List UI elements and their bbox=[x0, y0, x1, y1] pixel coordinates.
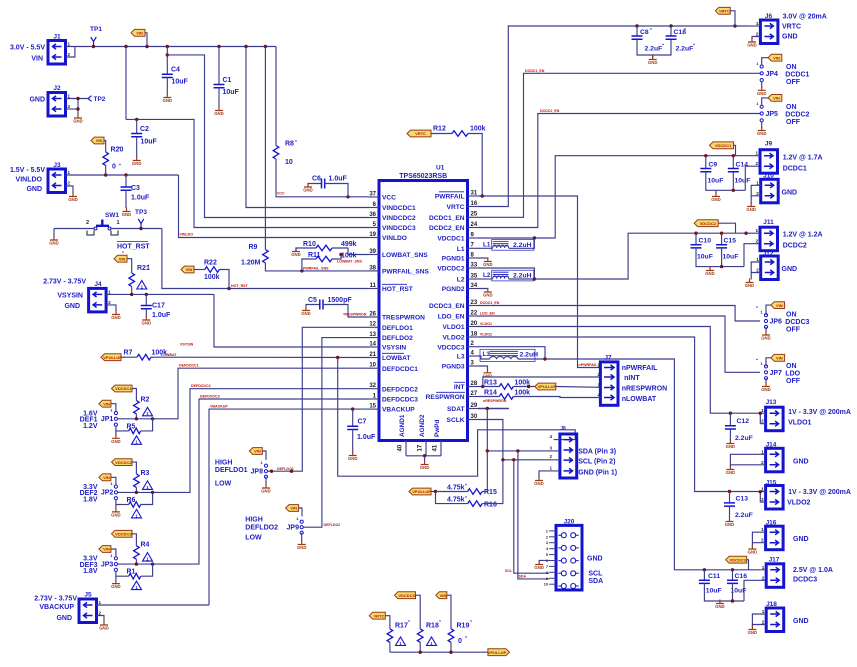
connector J3 body bbox=[48, 169, 71, 193]
svg-text:2.2uF: 2.2uF bbox=[735, 435, 753, 442]
svg-text:R19: R19 bbox=[457, 623, 470, 630]
svg-text:2.2uF: 2.2uF bbox=[735, 512, 753, 519]
net label nRESPWRON bbox=[483, 399, 507, 403]
wire J2 gnd drop bbox=[77, 99, 79, 115]
label R12 value bbox=[470, 126, 486, 133]
op-amp U1 TPS65023RSB IC body bbox=[379, 165, 468, 441]
label R14 bbox=[484, 390, 497, 397]
junction R22 bbox=[227, 287, 230, 290]
warning triangle R1 bbox=[132, 581, 142, 590]
svg-text:R12: R12 bbox=[433, 126, 446, 133]
wire R6 lead bbox=[123, 504, 129, 506]
svg-text:GND: GND bbox=[26, 186, 42, 193]
label DCDC3 J17 bbox=[793, 577, 817, 584]
svg-text:VIN: VIN bbox=[103, 401, 110, 406]
svg-text:ON: ON bbox=[786, 104, 797, 111]
wire VSYSIN net bbox=[214, 294, 369, 347]
svg-text:R13: R13 bbox=[484, 380, 497, 387]
U1 pin 35 L2 bbox=[457, 273, 478, 283]
net flag VDCDC1 JP1 bbox=[112, 385, 133, 392]
svg-text:SCL: SCL bbox=[588, 571, 603, 578]
svg-text:SDA: SDA bbox=[519, 575, 527, 579]
junction VPULLUP R13 bbox=[527, 385, 530, 388]
svg-text:C13: C13 bbox=[736, 496, 749, 503]
svg-text:DEFLDO2: DEFLDO2 bbox=[382, 335, 413, 342]
net flag VIN JP5 bbox=[768, 95, 782, 102]
svg-text:25: 25 bbox=[471, 212, 478, 218]
junction R15 R16 bbox=[434, 490, 437, 493]
net flag VIN JP7 bbox=[771, 354, 785, 361]
wire flag to R18 bbox=[416, 595, 421, 629]
label R8 bbox=[285, 141, 294, 148]
svg-text:33: 33 bbox=[471, 262, 478, 268]
wire C13 to gnd bbox=[729, 506, 731, 518]
label C11 bbox=[708, 573, 720, 580]
net label DCDC2_EN bbox=[540, 109, 560, 113]
svg-text:DEFDCDC2: DEFDCDC2 bbox=[191, 384, 211, 388]
net flag VIN JP1 bbox=[99, 400, 111, 407]
svg-text:R8: R8 bbox=[285, 141, 294, 148]
resistor R6 bbox=[129, 502, 141, 508]
label OFF JP6 bbox=[786, 327, 801, 334]
svg-text:1: 1 bbox=[99, 600, 102, 605]
label 1.8V bbox=[83, 497, 98, 504]
ground C8 C18 bbox=[648, 56, 658, 66]
ground J14 bbox=[726, 466, 736, 476]
svg-text:1: 1 bbox=[296, 517, 298, 521]
label DEF1 bbox=[80, 417, 98, 424]
label GND J6 bbox=[782, 34, 798, 41]
wire JP1 gnd drop bbox=[115, 431, 117, 435]
label R4 bbox=[141, 542, 150, 549]
junction R3 bottom bbox=[135, 491, 138, 494]
connector J16 body bbox=[761, 526, 783, 550]
wire VCC net bbox=[276, 159, 369, 197]
wire R22 to HOT_RST bbox=[219, 270, 229, 289]
wire R10 to LOWBAT_SNS bbox=[332, 248, 369, 255]
svg-text:VINDCDC1: VINDCDC1 bbox=[382, 205, 416, 212]
U1 pin 11 HOT_RST bbox=[369, 283, 413, 293]
svg-text:VPULLUP: VPULLUP bbox=[538, 384, 557, 389]
U1 pin 14 VSYSIN bbox=[369, 341, 407, 351]
wire to C4 bbox=[166, 47, 168, 74]
svg-text:nINT: nINT bbox=[624, 375, 640, 382]
U1 pin 27 RESPWRON bbox=[426, 391, 478, 401]
label C2 bbox=[140, 126, 149, 133]
junction C6 bbox=[346, 195, 349, 198]
label DEF2 bbox=[80, 490, 98, 497]
label 3.0V @ 20mA bbox=[783, 14, 827, 21]
label GND J18 bbox=[793, 618, 809, 625]
ground AGND bbox=[420, 461, 430, 471]
wire VLDO2 net bbox=[478, 337, 760, 492]
wire C15 bottom bbox=[721, 248, 723, 267]
label ON JP5 bbox=[786, 104, 797, 111]
label GND J14 bbox=[793, 459, 809, 466]
svg-text:2: 2 bbox=[68, 181, 71, 186]
U1 pin 15 VBACKUP bbox=[369, 404, 416, 414]
U1 pin 40 AGND1 bbox=[398, 414, 407, 456]
capacitor C12 bbox=[725, 426, 736, 429]
svg-text:DCDC2: DCDC2 bbox=[783, 243, 807, 250]
svg-text:GND: GND bbox=[56, 615, 72, 622]
wire C14 bottom bbox=[732, 172, 734, 191]
svg-text:GND: GND bbox=[761, 387, 771, 392]
warning triangle R3 bbox=[143, 481, 153, 490]
svg-text:VRTC: VRTC bbox=[782, 24, 801, 31]
resistor R12 bbox=[452, 131, 468, 137]
label SDA Pin 3 bbox=[578, 449, 616, 456]
wire J10 pins short bbox=[751, 185, 761, 196]
svg-text:GND: GND bbox=[111, 513, 121, 518]
capacitor C5 bbox=[320, 300, 323, 310]
wire to C16 bbox=[732, 570, 734, 580]
wire PGND3 bbox=[478, 366, 488, 370]
svg-text:VIN: VIN bbox=[290, 506, 297, 511]
wire gnd to R10 bbox=[296, 248, 316, 252]
wire VINLDO net bbox=[179, 175, 369, 238]
svg-text:VLDO1: VLDO1 bbox=[480, 322, 492, 326]
wire R3 to node bbox=[135, 488, 137, 493]
net flag VPULLUP R7 bbox=[101, 354, 122, 361]
svg-text:DEFDCDC3: DEFDCDC3 bbox=[382, 397, 418, 404]
svg-text:2: 2 bbox=[761, 497, 764, 502]
wire R15 lead bbox=[436, 491, 468, 493]
junction C3 bbox=[124, 173, 127, 176]
svg-text:VIN: VIN bbox=[773, 96, 780, 101]
junction C9 bbox=[704, 154, 707, 157]
wire gnd to C5 bbox=[306, 305, 320, 307]
wire VDCDC3 pin2 bbox=[478, 347, 545, 359]
wire J4 pin2 bbox=[106, 305, 116, 311]
resistor R13 bbox=[499, 384, 513, 390]
connector J2 body bbox=[48, 93, 71, 117]
svg-text:LOWBAT_SNS: LOWBAT_SNS bbox=[337, 260, 362, 264]
label L3 value bbox=[520, 351, 539, 358]
label VLDO1 J13 bbox=[788, 420, 811, 427]
svg-text:C11: C11 bbox=[708, 573, 720, 580]
ground C17 bbox=[142, 316, 152, 326]
svg-text:VLDO2: VLDO2 bbox=[443, 335, 465, 342]
junction JP8 mid bbox=[270, 470, 273, 473]
label HOT_RST net name bbox=[117, 242, 150, 251]
junction bbox=[76, 107, 79, 110]
svg-text:39: 39 bbox=[369, 249, 376, 255]
warning triangle R4 bbox=[143, 553, 153, 562]
wire J10 gnd drop bbox=[750, 196, 752, 204]
net label VBACKUP bbox=[210, 405, 228, 409]
label R22 value bbox=[204, 274, 220, 281]
svg-text:1: 1 bbox=[546, 529, 548, 533]
svg-text:VDCDC2: VDCDC2 bbox=[115, 460, 132, 465]
wire VIN to JP8 bbox=[262, 451, 266, 460]
label ON JP6 bbox=[786, 312, 797, 319]
svg-text:JP6: JP6 bbox=[770, 319, 783, 326]
svg-text:VRTC: VRTC bbox=[415, 131, 426, 136]
wire VINDCDC3 net bbox=[126, 119, 369, 227]
svg-text:VSYSIN: VSYSIN bbox=[57, 293, 83, 300]
svg-text:C2: C2 bbox=[140, 126, 149, 133]
svg-text:GND: GND bbox=[64, 303, 80, 310]
label GND J10 bbox=[782, 190, 798, 197]
ground J6 bbox=[747, 38, 757, 48]
svg-text:R15: R15 bbox=[484, 489, 497, 496]
svg-text:2.2uF: 2.2uF bbox=[676, 46, 694, 53]
junction SDAT bbox=[486, 407, 489, 410]
svg-text:1: 1 bbox=[68, 170, 71, 175]
wire R17 bottom bbox=[389, 642, 391, 652]
U1 pin 25 DCDC1_EN bbox=[429, 212, 478, 222]
U1 pin 33 VDCDC2 bbox=[437, 262, 478, 272]
svg-text:1: 1 bbox=[761, 362, 763, 366]
junction C15 gnd bbox=[720, 265, 723, 268]
svg-text:DCDC3_EN: DCDC3_EN bbox=[480, 301, 500, 305]
junction nINT branch bbox=[481, 385, 484, 388]
svg-text:VDCDC1: VDCDC1 bbox=[115, 386, 132, 391]
svg-text:35: 35 bbox=[471, 273, 478, 279]
svg-text:LDO: LDO bbox=[785, 371, 800, 378]
label C6 bbox=[312, 176, 321, 183]
net flag VIN R19 bbox=[436, 592, 447, 599]
svg-text:AGND1: AGND1 bbox=[399, 414, 406, 437]
wire VBACKUP net bbox=[209, 409, 369, 605]
svg-text:VIN: VIN bbox=[186, 267, 193, 272]
wire flag to R4 bbox=[132, 534, 136, 546]
label L1 bbox=[483, 241, 491, 248]
junction SCL bbox=[501, 458, 504, 461]
label R16 value bbox=[447, 497, 465, 504]
svg-text:100k: 100k bbox=[204, 274, 220, 281]
svg-text:4.75k: 4.75k bbox=[447, 485, 465, 492]
wire SW1 right HOT_RST bbox=[111, 228, 162, 230]
net label DEFDCDC1 bbox=[179, 364, 199, 368]
svg-text:1.2V @ 1.2A: 1.2V @ 1.2A bbox=[783, 232, 823, 239]
label C9 bbox=[709, 162, 718, 169]
svg-text:2.5V @ 1.0A: 2.5V @ 1.0A bbox=[793, 567, 833, 574]
wire to C11 bbox=[703, 570, 705, 580]
label DCDC2 JP5 bbox=[785, 112, 809, 119]
junction VRTC flag bbox=[733, 24, 736, 27]
svg-text:2: 2 bbox=[108, 300, 111, 305]
capacitor C2 bbox=[131, 134, 142, 137]
U1 pin 32 DEFDCDC2 bbox=[369, 383, 419, 393]
wire VDCDC3 flag stub bbox=[747, 560, 749, 570]
svg-text:PWRFAIL: PWRFAIL bbox=[435, 194, 465, 201]
net flag VRTC top bbox=[715, 7, 730, 14]
svg-text:R22: R22 bbox=[204, 260, 217, 267]
svg-text:VPULLUP: VPULLUP bbox=[103, 355, 122, 360]
resistor R21 bbox=[129, 273, 135, 287]
label OFF JP7 bbox=[786, 378, 801, 385]
svg-text:TRESPWRON: TRESPWRON bbox=[382, 315, 425, 322]
svg-text:VIN: VIN bbox=[776, 356, 783, 361]
svg-text:2: 2 bbox=[761, 538, 764, 543]
label VBACKUP bbox=[39, 604, 74, 611]
svg-text:C1: C1 bbox=[223, 77, 232, 84]
net label VINLDO bbox=[180, 233, 194, 237]
label C15 value bbox=[723, 254, 739, 261]
svg-text:2.2uF: 2.2uF bbox=[645, 46, 663, 53]
svg-text:1.0uF: 1.0uF bbox=[152, 312, 171, 319]
label L3 bbox=[483, 351, 491, 358]
wire C2 to gnd bbox=[136, 137, 138, 157]
wire to C14 bbox=[732, 156, 734, 168]
label ON JP4 bbox=[786, 64, 797, 71]
wire SDAT riser bbox=[486, 409, 488, 451]
wire HOT_RST net bbox=[162, 229, 369, 289]
wire R20 to J3 net bbox=[105, 166, 107, 176]
svg-text:HOT_RST: HOT_RST bbox=[231, 284, 249, 288]
U1 pin 34 PGND2 bbox=[442, 283, 478, 293]
label C17 value bbox=[152, 312, 171, 319]
connector J4 bbox=[94, 281, 102, 288]
svg-text:OFF: OFF bbox=[786, 119, 801, 126]
svg-text:10uF: 10uF bbox=[141, 139, 158, 146]
svg-text:C5: C5 bbox=[308, 297, 317, 304]
net flag VRTC R17 bbox=[369, 612, 385, 619]
wire JP2 gnd drop bbox=[115, 505, 117, 509]
connector J2 bbox=[53, 85, 61, 92]
svg-text:VIN: VIN bbox=[254, 449, 261, 454]
ground JP2 bbox=[111, 508, 121, 518]
wire R11 right bbox=[332, 255, 341, 260]
wire JP9 gnd drop bbox=[301, 533, 303, 541]
connector J12 body bbox=[756, 256, 778, 280]
svg-text:GND: GND bbox=[68, 197, 78, 202]
wire flag to R17 bbox=[385, 616, 390, 629]
label C17 bbox=[152, 303, 165, 310]
svg-text:VCC: VCC bbox=[277, 192, 285, 196]
net label VCC bbox=[277, 192, 285, 196]
svg-text:GND: GND bbox=[214, 111, 224, 116]
junction R6 riser bbox=[151, 491, 154, 494]
ground C4 bbox=[163, 94, 173, 104]
svg-text:GND: GND bbox=[420, 465, 430, 470]
svg-text:C14: C14 bbox=[736, 162, 749, 169]
jumper JP6 bbox=[761, 311, 768, 329]
svg-text:GND: GND bbox=[301, 311, 311, 316]
wire JP7 gnd drop bbox=[765, 378, 767, 383]
wire J6 pin1 stub bbox=[749, 25, 760, 27]
svg-text:1: 1 bbox=[756, 228, 759, 233]
label C11 value bbox=[706, 588, 722, 595]
svg-text:1: 1 bbox=[110, 554, 112, 558]
svg-text:GND: GND bbox=[757, 131, 767, 136]
svg-text:VINLDO: VINLDO bbox=[382, 235, 407, 242]
svg-text:GND: GND bbox=[793, 618, 809, 625]
jumper JP8 bbox=[261, 461, 268, 478]
warning triangle R21 bbox=[137, 281, 147, 290]
svg-text:LOWBAT_SNS: LOWBAT_SNS bbox=[382, 252, 428, 259]
wire SW1 gnd drop bbox=[53, 229, 55, 237]
wire R16 lead bbox=[436, 492, 468, 504]
svg-text:4.75k: 4.75k bbox=[447, 497, 465, 504]
connector J9 bbox=[765, 141, 773, 148]
svg-text:VLDO1: VLDO1 bbox=[443, 324, 465, 331]
svg-text:C4: C4 bbox=[171, 67, 180, 74]
wire C3 to gnd bbox=[125, 190, 127, 208]
wire LOWBAT net bbox=[151, 356, 369, 358]
svg-text:VSYSIN: VSYSIN bbox=[180, 343, 194, 347]
svg-text:0: 0 bbox=[112, 164, 116, 171]
label GND J16 bbox=[793, 536, 809, 543]
junction C17 bbox=[145, 293, 148, 296]
U1 pin 28 INT bbox=[454, 381, 478, 391]
wire VINDCDC1 net bbox=[246, 47, 369, 208]
wire C10 bottom bbox=[696, 248, 744, 267]
wire pin35 to L2 bbox=[478, 278, 493, 280]
svg-text:24: 24 bbox=[471, 222, 478, 228]
wire C5 to TRESPWRON bbox=[323, 305, 369, 318]
wire J16 gnd drop bbox=[751, 543, 753, 546]
wire VRTC net bbox=[478, 26, 749, 207]
svg-text:DCDC3_EN: DCDC3_EN bbox=[429, 303, 465, 310]
svg-text:5: 5 bbox=[546, 553, 548, 557]
label R15 value bbox=[447, 485, 465, 492]
net label DEFDCDC3 bbox=[200, 395, 220, 399]
U1 pin 31 PWRFAIL bbox=[435, 190, 478, 200]
svg-text:DEFLDO2: DEFLDO2 bbox=[324, 523, 341, 527]
wire C7 to gnd bbox=[352, 430, 354, 453]
wire J16 pins short bbox=[752, 532, 765, 543]
svg-text:28: 28 bbox=[471, 381, 478, 387]
svg-text:VINLDO: VINLDO bbox=[180, 233, 194, 237]
junction SDA bbox=[486, 449, 489, 452]
svg-text:nLOWBAT: nLOWBAT bbox=[622, 396, 657, 403]
svg-text:13: 13 bbox=[369, 332, 376, 338]
svg-text:11: 11 bbox=[370, 283, 377, 289]
svg-text:2: 2 bbox=[68, 104, 71, 109]
label R12 bbox=[433, 126, 446, 133]
wire to C9 bbox=[705, 156, 707, 168]
junction R18 bottom bbox=[419, 651, 422, 654]
svg-text:1.0uF: 1.0uF bbox=[357, 434, 376, 441]
wire J17 pin2 bbox=[744, 580, 766, 601]
wire L2 out bbox=[509, 278, 535, 280]
label R19 bbox=[457, 623, 470, 630]
svg-text:GND: GND bbox=[534, 481, 544, 486]
wire R19 bottom bbox=[450, 642, 452, 652]
label C2 value bbox=[141, 139, 158, 146]
junction JP8 mid2 bbox=[290, 470, 293, 473]
wire SCL to J20 bbox=[514, 460, 549, 573]
wire pin4 to L3 bbox=[478, 356, 490, 359]
ground C11 C16 bbox=[715, 600, 725, 610]
svg-text:L1: L1 bbox=[457, 246, 465, 253]
svg-text:C8: C8 bbox=[640, 29, 649, 36]
resistor R11 bbox=[316, 256, 332, 262]
connector J6 bbox=[765, 13, 773, 20]
svg-text:VDCDC1: VDCDC1 bbox=[715, 143, 732, 148]
wire VDCDC2 flag stub bbox=[718, 223, 735, 233]
svg-text:GND: GND bbox=[483, 373, 493, 378]
label nINT bbox=[624, 375, 640, 382]
svg-text:JP7: JP7 bbox=[770, 370, 783, 377]
connector J20 bbox=[564, 519, 575, 526]
wire J2 pin2 bbox=[66, 108, 79, 110]
svg-text:C18: C18 bbox=[674, 29, 687, 36]
wire pin7 to L1 bbox=[478, 247, 493, 249]
label L2 value bbox=[513, 273, 532, 280]
svg-text:OFF: OFF bbox=[786, 327, 801, 334]
label C16 bbox=[735, 573, 748, 580]
svg-text:R14: R14 bbox=[484, 390, 497, 397]
connector J17 bbox=[769, 557, 780, 564]
svg-text:10uF: 10uF bbox=[723, 254, 739, 261]
net label nPWRFAIL bbox=[579, 363, 598, 367]
ground J16 bbox=[748, 545, 758, 555]
svg-text:1: 1 bbox=[761, 311, 763, 315]
